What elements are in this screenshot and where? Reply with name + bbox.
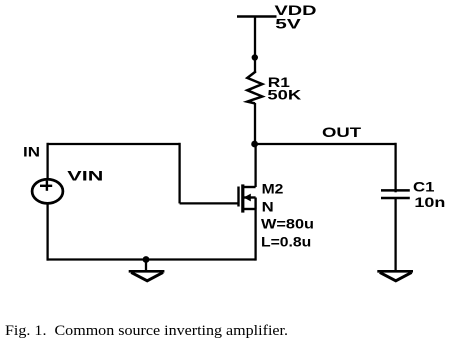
wire IN to gate vertical — [178, 143, 180, 204]
label VIN — [67, 168, 103, 184]
resistor R1 — [247, 72, 262, 104]
wire gate horizontal — [180, 202, 239, 204]
svg-text:N: N — [262, 199, 274, 215]
label 5V — [275, 16, 301, 32]
svg-text:OUT: OUT — [322, 124, 362, 140]
node OUT junction — [251, 141, 258, 148]
svg-text:C1: C1 — [413, 179, 435, 195]
capacitor C1 — [381, 190, 410, 198]
wire IN node — [48, 143, 180, 145]
wire OUT — [255, 143, 396, 145]
voltage source VIN — [32, 179, 63, 203]
junction dot on VDD stem — [252, 54, 258, 60]
label VDD — [275, 2, 317, 18]
transistor M2 — [239, 184, 256, 212]
svg-text:VIN: VIN — [67, 168, 103, 184]
label IN — [23, 143, 40, 159]
ground left — [129, 271, 165, 281]
wire C1 to ground — [394, 198, 396, 271]
label M2 — [262, 181, 284, 197]
label 10n — [414, 194, 445, 210]
wire ground rail — [47, 258, 256, 260]
wire IN corner to VIN — [46, 143, 48, 180]
label C1 — [413, 179, 435, 195]
svg-text:W=80u: W=80u — [261, 216, 314, 232]
label OUT — [322, 124, 362, 140]
svg-text:M2: M2 — [262, 181, 284, 197]
svg-text:IN: IN — [23, 143, 40, 159]
svg-text:L=0.8u: L=0.8u — [261, 234, 311, 250]
junction dot ground rail — [143, 256, 150, 263]
label W=80u — [261, 216, 314, 232]
wire source to ground rail — [254, 209, 256, 261]
svg-text:5V: 5V — [275, 16, 301, 32]
label R1 — [268, 74, 290, 90]
power rail VDD — [237, 15, 277, 18]
ground right — [377, 271, 413, 281]
wire R1 to node OUT — [254, 103, 256, 144]
caption Fig. 1 — [5, 323, 288, 339]
svg-text:50K: 50K — [267, 87, 301, 103]
wire OUT to C1 — [394, 143, 396, 193]
wire drain — [254, 144, 256, 187]
label L=0.8u — [261, 234, 311, 250]
svg-text:Fig. 1. Common source inverti: Fig. 1. Common source inverting amplifie… — [5, 323, 288, 339]
wire VDD stem to R1 — [254, 17, 256, 74]
wire VIN to ground rail — [46, 203, 48, 261]
label N — [262, 199, 274, 215]
label 50K — [267, 87, 301, 103]
svg-text:10n: 10n — [414, 194, 445, 210]
wire ground stem — [145, 260, 147, 272]
